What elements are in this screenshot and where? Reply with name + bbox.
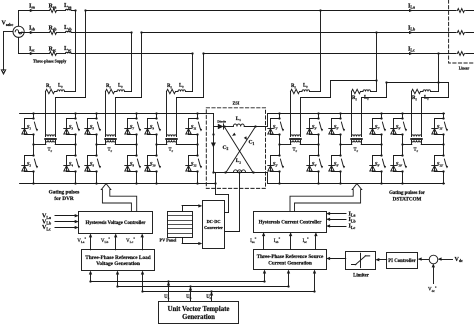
svg-text:Three-Phase Reference Load: Three-Phase Reference Load	[85, 255, 150, 261]
svg-text:S5: S5	[90, 125, 95, 130]
svg-text:Unit Vector Template: Unit Vector Template	[168, 306, 230, 313]
svg-text:S9: S9	[150, 125, 155, 130]
svg-text:Generation: Generation	[182, 314, 215, 321]
svg-text:S11′: S11′	[437, 125, 443, 130]
svg-text:Voltage Generation: Voltage Generation	[96, 261, 140, 267]
svg-text:S1: S1	[27, 125, 32, 130]
svg-text:S4′: S4′	[312, 162, 317, 167]
svg-text:Diode: Diode	[217, 120, 226, 124]
svg-text:DC-DC: DC-DC	[207, 219, 221, 224]
svg-text:S7: S7	[130, 125, 135, 130]
svg-text:S1′: S1′	[273, 125, 278, 130]
svg-text:DSTATCOM: DSTATCOM	[393, 196, 422, 202]
svg-text:S4: S4	[69, 162, 74, 167]
svg-text:S6: S6	[90, 162, 95, 167]
svg-text:Current Generation: Current Generation	[268, 260, 312, 266]
svg-text:S12′: S12′	[437, 162, 444, 167]
svg-text:S10′: S10′	[396, 162, 403, 167]
svg-text:PV Panel: PV Panel	[160, 238, 178, 243]
svg-text:Hysteresis Voltage Controller: Hysteresis Voltage Controller	[85, 221, 146, 226]
svg-text:S6′: S6′	[334, 162, 339, 167]
svg-text:S11: S11	[191, 125, 197, 130]
svg-text:S3′: S3′	[312, 125, 317, 130]
svg-text:S9′: S9′	[396, 125, 401, 130]
svg-text:ZSI: ZSI	[233, 101, 240, 106]
svg-text:Converter: Converter	[204, 225, 223, 230]
svg-text:S2: S2	[27, 162, 32, 167]
svg-text:S5′: S5′	[334, 125, 339, 130]
svg-text:S8′: S8′	[375, 162, 380, 167]
svg-text:Linear: Linear	[459, 67, 470, 71]
svg-text:Uc: Uc	[206, 295, 211, 300]
svg-text:for DVR: for DVR	[54, 196, 74, 202]
svg-text:S7′: S7′	[375, 125, 380, 130]
svg-text:Three-Phase Reference Source: Three-Phase Reference Source	[257, 254, 324, 260]
svg-text:S12: S12	[191, 162, 197, 167]
svg-text:Gating pulses: Gating pulses	[49, 190, 80, 196]
svg-text:S10: S10	[150, 162, 156, 167]
svg-text:Limiter: Limiter	[353, 273, 370, 278]
svg-text:Three-phase Supply: Three-phase Supply	[33, 60, 66, 64]
svg-text:Hysteresis Current Controller: Hysteresis Current Controller	[259, 221, 323, 226]
svg-text:Gating pulses for: Gating pulses for	[389, 191, 426, 196]
svg-text:S2′: S2′	[273, 162, 278, 167]
svg-text:S8: S8	[130, 162, 135, 167]
svg-text:PI Controller: PI Controller	[388, 259, 416, 264]
svg-text:S3: S3	[69, 125, 74, 130]
